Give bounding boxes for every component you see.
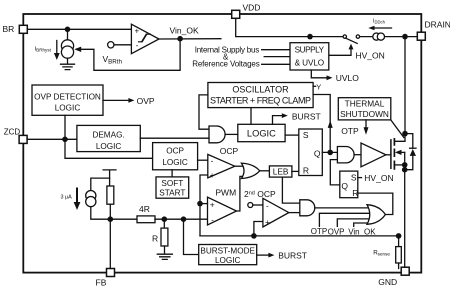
svg-text:-: - [211,216,214,225]
svg-text:LEB: LEB [273,167,289,177]
svg-text:+: + [135,27,140,36]
arrowhead BURST top [282,113,288,118]
block SOFT START [156,177,189,198]
node BR junction [65,27,71,33]
wire bar to 3uA source [91,178,110,191]
svg-text:OVP: OVP [137,96,155,106]
ground under IBRhyst [61,64,75,69]
reference input VBRth terminal [108,42,114,48]
wire body to source [404,152,406,169]
block OVP DETECTION LOGIC [32,85,103,115]
svg-text:VDD: VDD [243,3,261,13]
svg-text:DRAIN: DRAIN [425,20,450,30]
node ZCD junction [62,137,68,143]
pad GND [401,267,409,275]
svg-text:HV_ON: HV_ON [356,50,385,60]
svg-text:Vin_OK: Vin_OK [170,26,199,36]
wire Rsense to GND [398,263,400,269]
svg-text:SHUTDOWN: SHUTDOWN [340,109,389,119]
svg-text:3 μA: 3 μA [61,195,73,201]
wire OVP output [103,99,129,101]
wire HV_ON control [329,50,351,56]
svg-text:LOGIC: LOGIC [215,256,241,265]
thermal sense slant [391,120,404,138]
wire 2nd OCP output [289,212,300,214]
wire LEB to A2 [282,177,299,203]
wire HV latch Q to A3 [330,160,340,185]
wire OVP input stub [337,219,370,226]
arrow IBRhyst direction [56,41,58,55]
block LOGIC [238,124,285,141]
node source join [402,162,408,168]
svg-text:Q: Q [314,149,321,159]
comparator PWM [208,197,237,225]
comparator U1 Vin_OK [131,24,159,54]
and-gate A2 leb/2nd ocp [300,200,315,216]
svg-text:ZCD: ZCD [4,127,21,136]
switch HV_ON contacts [343,35,346,38]
wire ZCD to OCP LOGIC [65,139,153,158]
wire PWM plus input [200,203,208,205]
wire Q feedback to OSC [313,95,330,153]
node PWM plus tap [197,201,203,207]
svg-text:R: R [352,188,358,198]
svg-text:FB: FB [96,278,107,288]
svg-text:THERMAL: THERMAL [345,99,385,109]
latch main SR [299,129,323,176]
svg-text:LOGIC: LOGIC [96,142,122,151]
arrow OTP from thermal [365,120,367,129]
wire ref to 2nd OCP minus [253,204,263,206]
wire diode branch top [405,134,413,149]
svg-text:SUPPLY: SUPPLY [295,45,325,54]
wire A1 to LOGIC [225,133,238,135]
resistor Rsense [396,247,402,263]
wire current source to ground [67,58,69,64]
svg-text:SOFT: SOFT [161,179,183,188]
svg-text:-: - [266,202,269,211]
node drain rail junction [402,34,408,40]
wire DEMAG to A1 [140,137,209,139]
svg-text:Reference Voltages: Reference Voltages [192,60,260,69]
wire HV latch R input [358,192,393,194]
svg-text:+: + [210,171,215,180]
wire sense to Rsense [398,236,400,247]
svg-text:UVLO: UVLO [336,73,360,83]
driver buffer [361,143,386,167]
node burst tap junction [181,216,187,222]
svg-text:OSCILLATOR: OSCILLATOR [232,85,289,95]
net Y tick [313,85,316,87]
wire OSC to AND gate [199,95,209,129]
node 2nd OCP tap [251,233,257,239]
wire supply bus line 1 [262,49,290,51]
svg-text:STARTER + FREQ CLAMP: STARTER + FREQ CLAMP [210,96,311,106]
pad FB [107,269,115,277]
wire resistor to FB node [109,204,111,219]
svg-text:& UVLO: & UVLO [295,59,325,68]
wire Vin_OK output [159,38,221,40]
ground under R [157,254,172,259]
arrow 3uA direction [76,189,78,203]
svg-text:LOGIC: LOGIC [55,103,81,112]
wire HV latch S tick [358,177,362,179]
arrowhead UVLO [327,75,333,80]
node diode branch [402,131,408,137]
block OSCILLATOR STARTER + FREQ CLAMP [208,83,313,108]
and-gate A1 osc/demag [209,126,225,143]
wire 2nd OCP plus input [254,222,263,236]
svg-text:OTP: OTP [341,126,359,136]
wire drain vertical [394,37,405,142]
wire OVP box to ZCD node [64,115,66,139]
pad DRAIN [417,32,425,40]
wire BURST output [257,254,269,256]
node diode source join [402,167,408,173]
wire burst tap to BURST-MODE box [184,219,199,254]
block BURST-MODE LOGIC [199,245,257,265]
wire A3 to driver [354,154,361,156]
wire OCP LOGIC to comparator [198,159,208,161]
wire OTP input stub [319,213,369,226]
wire 3uA bottom [91,207,137,220]
pad VDD [232,10,240,18]
wire supply bus line 3 [262,63,290,65]
wire VBRth to comparator [114,44,131,46]
svg-text:4R: 4R [139,204,150,214]
switch blade [346,38,357,43]
svg-text:IDDch: IDDch [373,18,386,24]
comparator 2nd OCP [263,198,289,227]
svg-text:Vin_OK: Vin_OK [348,227,376,236]
block LEB [269,166,292,177]
wire VDD drop to internal rail [236,18,418,36]
transistor M1 channel segments [393,139,395,169]
svg-text:PWM: PWM [215,188,236,198]
node Q junction [327,150,333,156]
svg-text:GND: GND [378,277,397,287]
and-gate A3 driver enable [337,147,354,163]
current source IBRhyst [61,40,73,52]
arrow IDDch direction [374,27,392,29]
wire FB drop [109,219,111,268]
node FB junction [108,216,114,222]
svg-text:BURST: BURST [292,111,321,121]
svg-text:S: S [303,130,309,140]
arrowhead HV_ON control [349,44,354,50]
svg-text:Q: Q [341,181,348,191]
block THERMAL SHUTDOWN [338,98,391,120]
hysteresis symbol [139,34,151,42]
svg-text:IBRhyst: IBRhyst [35,47,52,53]
svg-text:OVP DETECTION: OVP DETECTION [34,92,101,101]
svg-text:BURST-MODE: BURST-MODE [200,246,255,255]
wire source tap [394,164,404,166]
svg-text:LOGIC: LOGIC [162,158,188,167]
current source IDDch [373,33,380,40]
svg-text:HV_ON: HV_ON [364,173,393,183]
sense line horizontal [200,235,399,237]
resistor 4R [137,216,155,223]
svg-text:R: R [303,166,309,176]
arrowhead up on feedback [328,120,333,128]
wire BURST top output [273,116,283,125]
svg-text:OTP: OTP [311,227,327,236]
svg-text:+: + [210,201,215,210]
wire fault OR to latch R [385,193,392,214]
resistor divider upper [107,186,114,204]
arrowhead BURST bottom [268,253,274,258]
wire LEB to latch R [292,170,299,172]
or-gate O1 ocp/pwm [241,163,259,178]
svg-text:LOGIC: LOGIC [247,128,276,138]
pad BR [19,25,27,33]
block OCP LOGIC [153,143,198,170]
wire Q output [322,151,337,153]
wire OR to LEB [260,170,270,172]
wire hysteresis feedback from Vin_OK [81,39,180,71]
IC outer border [23,14,421,273]
svg-text:R: R [152,234,158,244]
wire PWM output to OR [237,176,244,211]
wire OCP LOGIC to SOFT START [171,170,173,177]
or-gate O2 fault [367,205,385,225]
svg-text:OCP: OCP [220,146,239,156]
arrowhead OVP [128,98,134,103]
node R divider junction [162,216,168,222]
wire to resistor R [163,219,165,228]
wire A2 to fault OR [315,207,369,209]
transistor M1 body arrow [401,151,405,153]
svg-text:Y: Y [316,83,321,92]
svg-text:OCP: OCP [166,147,184,156]
wire LOGIC to S [285,134,299,136]
transistor M1 gate bar [390,140,392,168]
reference terminal 2nd OCP [248,203,253,208]
arrowhead feedback into IBRhyst [74,47,81,52]
resistor R [161,228,168,246]
node supply rail [307,34,313,40]
wire Vin_OK input stub [354,223,371,226]
svg-text:START: START [159,189,185,198]
svg-text:DEMAG.: DEMAG. [92,130,124,139]
svg-text:+: + [265,218,270,227]
wire IBRhyst tap [67,29,69,40]
latch HV_ON [340,171,358,198]
block SUPPLY & UVLO [290,43,329,70]
svg-text:OVP: OVP [328,227,345,236]
diode body [410,147,416,149]
wire R to ground [164,246,166,254]
pad ZCD [19,135,27,143]
sense line vertical [200,175,207,236]
current source 3uA [86,191,96,201]
wire OCP output to OR [235,165,244,167]
comparator OCP [208,154,235,178]
wire BR to comparator [27,28,131,30]
wire source to GND pad [404,170,406,268]
node Vin_OK junction [177,36,183,42]
wire supply bus line 2 [264,56,290,58]
svg-text:S: S [351,173,357,183]
wire UVLO output [311,70,327,78]
wire ZCD to DEMAG [27,138,77,140]
wire 4R to PWM [155,218,208,220]
wire OSC to LOGIC [250,108,252,125]
block DEMAG LOGIC [77,125,140,151]
wire driver to gate [386,154,391,156]
node sense junction [396,233,402,239]
internal supply bar [103,170,116,186]
svg-text:-: - [136,41,139,50]
svg-text:BR: BR [3,24,15,34]
wire diode branch bottom [405,156,413,170]
svg-text:BURST: BURST [278,251,307,261]
svg-text:-: - [211,157,214,166]
